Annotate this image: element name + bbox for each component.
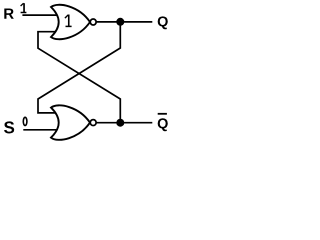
junction node Q — [116, 18, 124, 26]
value label 1 inside gate U1 — [65, 15, 72, 27]
label Q — [158, 16, 168, 29]
wire S input — [23, 129, 57, 131]
wire feedback from node Qbar to U1 lower input — [38, 32, 120, 123]
wire feedback from node Q to U2 upper input — [38, 22, 120, 113]
value 0 on S wire — [23, 117, 27, 125]
overbar of Qbar — [158, 113, 167, 115]
inversion bubble U1 — [90, 19, 96, 25]
label Qbar — [158, 118, 168, 131]
wire U2 output to Qbar — [97, 122, 153, 124]
NOR gate U1 body (top) — [51, 5, 90, 39]
inversion bubble U2 — [90, 120, 96, 126]
value 1 on R wire — [21, 3, 27, 13]
label S — [4, 121, 14, 133]
label R — [4, 8, 14, 18]
NOR gate U2 body (bottom) — [51, 105, 90, 139]
wire R input — [22, 14, 57, 16]
wire U1 output to Q — [97, 21, 153, 23]
junction node Qbar — [116, 119, 124, 127]
